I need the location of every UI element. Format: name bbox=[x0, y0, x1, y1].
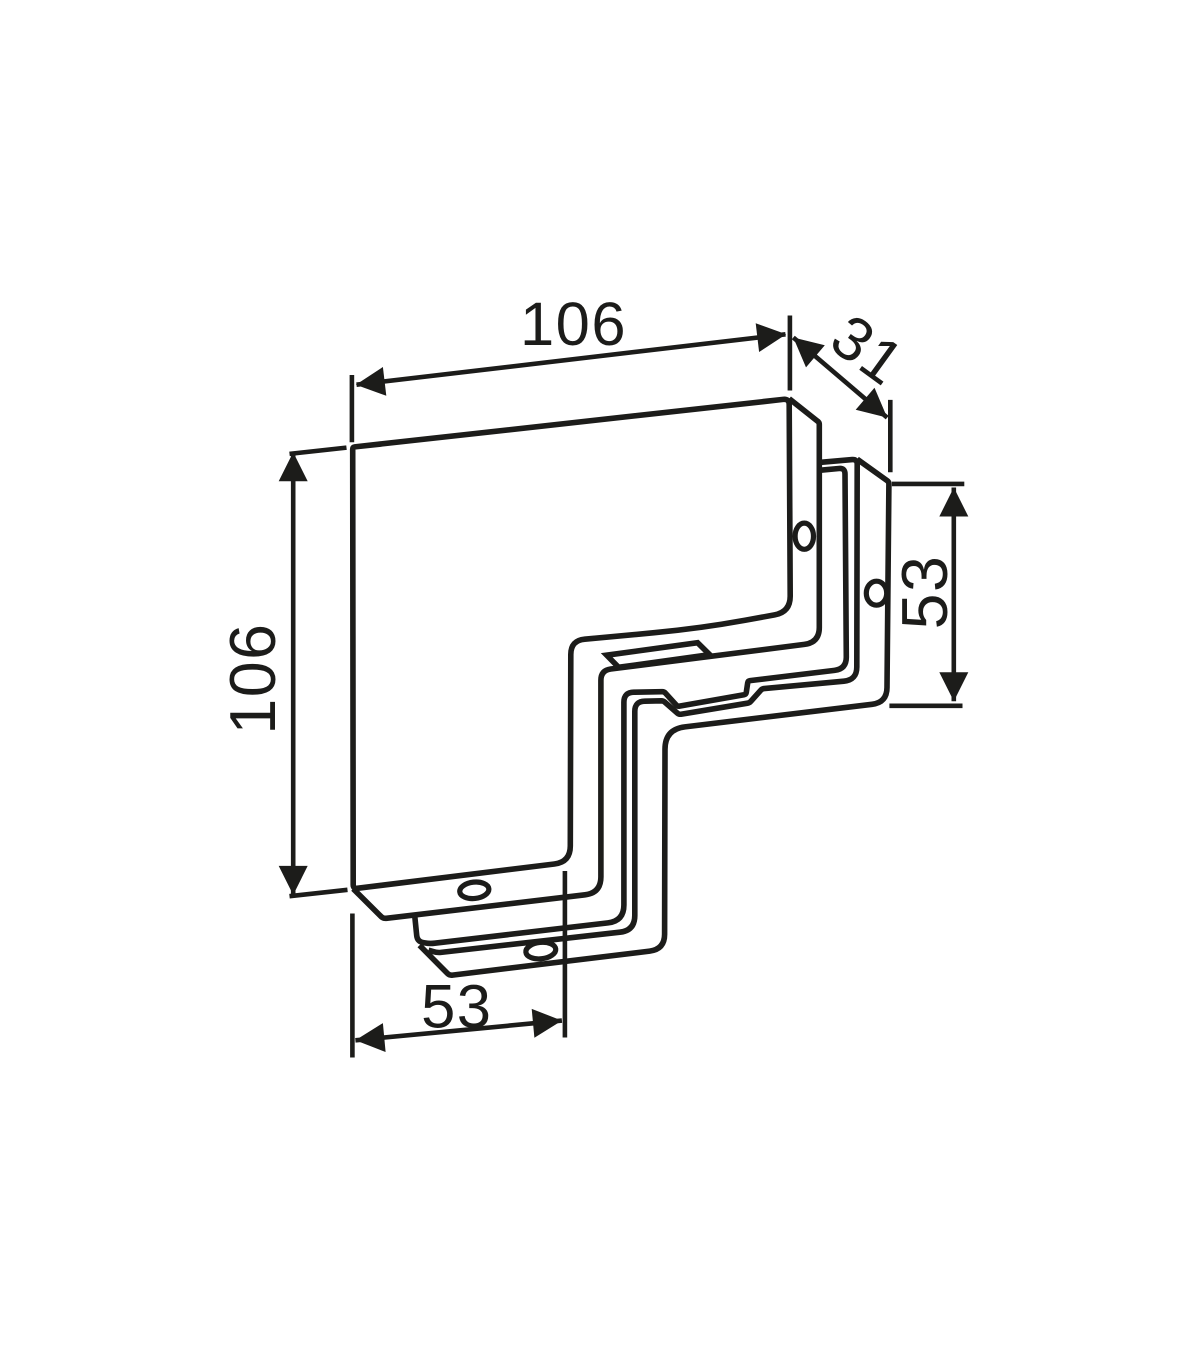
arrowhead depth far bbox=[856, 388, 888, 418]
arrowhead tab width right bbox=[532, 1009, 562, 1038]
dimension line height 106 bbox=[291, 452, 296, 895]
dimension line width 106 bbox=[357, 334, 786, 384]
back plate front outline bbox=[429, 460, 858, 953]
svg-text:106: 106 bbox=[217, 622, 289, 734]
extension line width right / depth near bbox=[788, 316, 793, 391]
screw hole back plate right bbox=[866, 581, 886, 605]
arrowhead height top bbox=[279, 452, 308, 481]
back plate rear outline bbox=[420, 459, 889, 975]
screw hole front plate right bbox=[795, 523, 813, 549]
dimension line side height 53 bbox=[951, 488, 956, 702]
arrowhead tab width left bbox=[355, 1023, 385, 1052]
svg-text:53: 53 bbox=[421, 973, 492, 1042]
extension line width left bbox=[350, 375, 355, 442]
svg-text:106: 106 bbox=[520, 290, 627, 359]
extension line height bottom bbox=[290, 890, 348, 896]
extension line height top bbox=[290, 448, 347, 454]
arrowhead depth near bbox=[793, 338, 825, 368]
extension line tab width left bbox=[350, 914, 355, 1058]
screw hole back plate bottom bbox=[525, 941, 557, 960]
front plate face outline bbox=[353, 399, 791, 888]
extension line depth far bbox=[888, 400, 893, 472]
arrowhead width left bbox=[356, 367, 387, 396]
arrowhead height bottom bbox=[279, 866, 308, 895]
arrowhead width right bbox=[756, 323, 787, 352]
dimension line tab width 53 bbox=[355, 1021, 562, 1041]
screw hole front plate bottom bbox=[459, 881, 490, 900]
extension line tab width right bbox=[563, 871, 568, 1038]
front plate rear outline bbox=[353, 399, 819, 919]
glass panel edge outline bbox=[415, 468, 847, 943]
arrowhead side height top bbox=[939, 488, 968, 517]
extension line side height bottom bbox=[889, 703, 962, 708]
arrowhead side height bottom bbox=[939, 672, 968, 701]
glass corner tab bbox=[607, 643, 710, 668]
svg-text:53: 53 bbox=[889, 555, 961, 630]
dimension line depth 31 bbox=[793, 338, 887, 418]
extension line side height top bbox=[892, 482, 964, 487]
